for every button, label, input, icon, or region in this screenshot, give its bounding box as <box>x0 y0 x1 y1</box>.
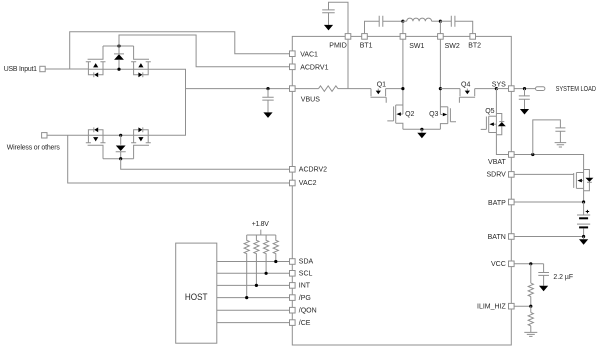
pin /PG <box>290 295 311 302</box>
pin /CE <box>290 320 311 327</box>
wire pair2 gate rail <box>103 158 134 160</box>
pin VAC1 <box>290 51 319 59</box>
svg-text:/QON: /QON <box>299 307 317 314</box>
terminal USB Input1 <box>40 66 45 71</box>
diode D5 (Q5 body) <box>496 114 505 135</box>
svg-text:+1.8V: +1.8V <box>252 221 269 228</box>
svg-text:USB Input1: USB Input1 <box>4 66 37 73</box>
wire inductor left lead <box>403 20 407 22</box>
capacitor C6 (VBAT) <box>555 128 565 143</box>
node source rail center <box>420 128 423 131</box>
resistor R3 (pull-up SCL) <box>264 235 269 273</box>
ground (SYS cap) <box>520 109 529 115</box>
node pair2 source junction <box>119 134 122 137</box>
wire SYS pin to system load <box>515 88 536 90</box>
capacitor C4 (VBUS) <box>262 89 273 113</box>
node pair1 gate rail junction <box>117 44 120 47</box>
pin BATN <box>488 234 514 241</box>
svg-text:BT2: BT2 <box>468 42 481 49</box>
svg-text:BATN: BATN <box>488 234 506 241</box>
IC U1 body <box>292 36 511 345</box>
node R2/INT <box>255 284 258 287</box>
svg-text:VAC2: VAC2 <box>299 180 317 187</box>
transistor QB2 (pair2 right, back-to-back) <box>131 127 151 158</box>
capacitor C3 (SW2-BT2 bootstrap) <box>451 16 455 27</box>
wire INT <box>217 284 290 286</box>
wire SW2 node to Q4 <box>440 88 460 90</box>
svg-text:Wireless or others: Wireless or others <box>7 145 61 152</box>
svg-text:SW1: SW1 <box>409 43 424 50</box>
wire SW2 riser <box>439 21 441 114</box>
pin SDA <box>290 259 314 266</box>
wire SYS node to SYS pin <box>496 88 508 90</box>
wire PMID pin to top-left bypass cap <box>329 2 349 33</box>
pin ACDRV2 <box>290 167 328 174</box>
node SW2 top junction <box>439 20 442 23</box>
node VBUS cap junction <box>266 87 269 90</box>
pin SW2 <box>438 34 460 51</box>
pin VBUS <box>290 86 321 104</box>
wire VAC1 riser and rail <box>70 32 290 69</box>
svg-text:SDRV: SDRV <box>486 171 506 178</box>
battery BT1 (2-cell) <box>577 202 590 237</box>
pin SCL <box>290 271 313 278</box>
diode D6 (Q6 body) <box>584 170 594 191</box>
resistor internal VBUS sense <box>319 86 338 92</box>
resistor R5 (VCC to ILIM_HIZ) <box>528 264 533 306</box>
wire BATP pin to battery <box>515 201 584 203</box>
pin BT1 <box>360 34 373 50</box>
wire ACDRV1 from gate rail <box>119 35 290 67</box>
wire pair1 gate rail <box>103 45 134 47</box>
capacitor C7 (VCC 2.2uF) <box>538 264 549 286</box>
transistor QB1 (pair2 left, back-to-back) <box>86 127 151 158</box>
wire C2 to SW1 riser <box>383 20 403 22</box>
svg-text:INT: INT <box>299 283 311 290</box>
svg-text:BT1: BT1 <box>360 42 373 49</box>
svg-text:HOST: HOST <box>185 291 208 302</box>
pin /QON <box>290 307 317 314</box>
wire pair1 to pair2 drain link <box>151 69 186 135</box>
terminal Wireless input <box>42 133 47 138</box>
wire VBUS external <box>186 88 290 90</box>
svg-text:VBUS: VBUS <box>301 96 320 103</box>
node pair2 gate rail junction <box>119 157 122 160</box>
wire VAC2 riser <box>68 135 290 183</box>
ground earth (ILIM resistor) <box>524 332 537 336</box>
svg-text:BATP: BATP <box>488 200 506 207</box>
pin BATP <box>488 199 514 207</box>
ground (VBUS cap) <box>263 112 272 118</box>
ground (Q2/Q3 sources) <box>417 129 426 138</box>
wire ACDRV2 from gate rail <box>121 159 290 170</box>
resistor R2 (pull-up INT) <box>254 235 259 285</box>
node battery negative junction <box>582 235 585 238</box>
wire C3 to BT2 pin <box>455 21 473 33</box>
svg-text:ACDRV2: ACDRV2 <box>299 167 327 174</box>
svg-text:Q3: Q3 <box>429 111 438 118</box>
svg-text:Q2: Q2 <box>405 111 414 118</box>
svg-text:/PG: /PG <box>299 295 311 302</box>
wire SCL <box>217 272 290 274</box>
pin ACDRV1 <box>290 64 329 72</box>
svg-text:PMID: PMID <box>329 42 347 49</box>
svg-text:/CE: /CE <box>299 320 311 327</box>
node SW1 top junction <box>401 20 404 23</box>
svg-text:Q5: Q5 <box>485 108 494 115</box>
node R3/SCL <box>265 272 268 275</box>
wire Q2-Q3 source rail <box>403 128 441 130</box>
wire resistor to Q1 <box>338 88 371 90</box>
pin VAC2 <box>290 180 317 187</box>
pin SDRV <box>486 171 514 178</box>
terminal SYSTEM LOAD <box>536 87 545 91</box>
wire SDRV pin to external FET gate <box>515 173 574 175</box>
svg-text:ILIM_HIZ: ILIM_HIZ <box>477 304 507 311</box>
wire /CE <box>217 322 290 324</box>
wire BATN pin to battery <box>515 236 584 238</box>
wire /QON <box>217 309 290 311</box>
svg-text:2.2 µF: 2.2 µF <box>553 274 573 281</box>
HOST block <box>176 243 217 343</box>
capacitor C2 (BT1-SW1 bootstrap) <box>379 16 383 27</box>
transistor QA1 (pair1 left, back-to-back) <box>86 46 151 77</box>
svg-text:VCC: VCC <box>491 261 506 268</box>
resistor R4 (pull-up SDA) <box>273 235 278 262</box>
diode D2 (pair2 center) <box>116 135 126 158</box>
svg-text:SYSTEM LOAD: SYSTEM LOAD <box>556 86 596 93</box>
transistor Q6 (external battery FET) <box>574 173 584 203</box>
pin PMID <box>329 34 351 50</box>
inductor L1 <box>407 18 432 21</box>
wire Q4 to SYS node <box>475 88 497 90</box>
transistor Q4 <box>459 89 475 103</box>
node battery positive junction <box>582 200 585 203</box>
ground earth (VBAT cap) <box>555 143 567 147</box>
svg-text:SW2: SW2 <box>445 43 460 50</box>
transistor QA2 (pair1 right, back-to-back) <box>131 46 151 77</box>
node R1/PG <box>245 296 248 299</box>
wire Q1 to SW1 riser <box>386 88 403 90</box>
wire SW2 node to C3 <box>440 20 451 22</box>
node SYS cap junction <box>523 87 526 90</box>
diode D1 (pair1 center) <box>114 46 124 69</box>
wire VBAT pin to battery branch <box>515 155 584 173</box>
wire VBUS pin to internal resistor <box>296 88 319 90</box>
wire +1.8V rail <box>247 230 276 235</box>
pin INT <box>290 283 311 290</box>
node ILIM_HIZ junction <box>529 305 532 308</box>
pin SYS <box>492 81 514 91</box>
wire BT1 riser <box>365 21 380 33</box>
node SW1 / Q1 junction <box>401 87 404 90</box>
capacitor C1 (PMID bypass) <box>322 10 335 25</box>
wire SDA <box>217 261 290 263</box>
resistor R1 (pull-up /PG) <box>244 235 249 298</box>
wire /PG <box>217 297 290 299</box>
ground (battery) <box>579 237 588 245</box>
pin BT2 <box>468 34 481 50</box>
wire VCC pin to node <box>515 263 544 265</box>
transistor Q3 <box>440 107 456 130</box>
wire VBAT node to cap C6 <box>533 120 561 155</box>
wire USB input to Q-pair1 <box>46 68 89 70</box>
wire PMID internal riser <box>347 40 349 89</box>
svg-text:VBAT: VBAT <box>488 159 506 166</box>
node VCC junction <box>529 262 532 265</box>
pin SW1 <box>400 34 424 51</box>
node SYS / Q5 junction <box>495 87 498 90</box>
node R4/SDA <box>274 260 277 263</box>
svg-text:VAC1: VAC1 <box>300 52 318 59</box>
node SW2 / Q4 junction <box>439 87 442 90</box>
capacitor C5 (SYS) <box>519 89 530 109</box>
transistor Q1 <box>371 89 387 103</box>
svg-text:Q1: Q1 <box>377 81 386 88</box>
svg-text:SCL: SCL <box>299 271 313 278</box>
wire wireless input to Q-pair2 <box>47 134 88 136</box>
node pair1 source junction <box>117 68 120 71</box>
ground (PMID cap) <box>324 25 333 31</box>
svg-text:Q4: Q4 <box>461 81 470 88</box>
wire inductor right lead <box>432 20 441 22</box>
wire Q5 source to VBAT pin <box>496 135 508 155</box>
transistor Q5 <box>481 89 497 135</box>
pin VCC <box>491 261 514 268</box>
wire ILIM_HIZ pin to node <box>515 305 531 307</box>
svg-text:SYS: SYS <box>492 81 506 88</box>
resistor R6 (ILIM_HIZ to ground) <box>528 306 533 332</box>
ground (VCC cap) <box>539 286 548 292</box>
pin ILIM_HIZ <box>477 303 514 310</box>
svg-text:SDA: SDA <box>299 259 314 266</box>
node VBAT cap junction <box>531 153 534 156</box>
svg-text:ACDRV1: ACDRV1 <box>300 65 328 72</box>
wire SW1 riser <box>402 21 404 114</box>
pin VBAT <box>488 152 514 166</box>
transistor Q2 <box>387 105 403 129</box>
